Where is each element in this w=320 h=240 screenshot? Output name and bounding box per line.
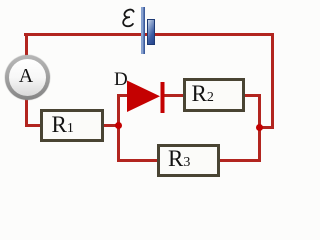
wire node R to right rail bbox=[258, 126, 274, 129]
label D bbox=[114, 70, 128, 89]
wire node R down bbox=[258, 127, 261, 162]
resistor R2 bbox=[183, 78, 245, 112]
wire diode cathode to R2 bbox=[164, 94, 184, 97]
node R junction dot bbox=[256, 124, 263, 131]
label R3 bbox=[168, 147, 190, 170]
wire R3 left horizontal bbox=[117, 159, 159, 162]
wire top-left horizontal bbox=[24, 33, 147, 36]
node L junction dot bbox=[115, 122, 122, 129]
battery cell: long plate bbox=[141, 7, 145, 54]
wire into diode anode bbox=[117, 94, 129, 97]
label R2 bbox=[192, 82, 214, 105]
battery cell: short thick plate bbox=[147, 19, 155, 46]
wire R1 to node L bbox=[103, 124, 118, 127]
wire R3 right horizontal bbox=[219, 159, 261, 162]
label R1 bbox=[52, 113, 74, 136]
resistor R1 bbox=[40, 109, 104, 143]
diode D bbox=[126, 79, 166, 115]
wire left vertical upper (corner to ammeter) bbox=[25, 33, 28, 57]
wire bottom-left horizontal into R1 bbox=[25, 124, 42, 127]
wire top-right horizontal bbox=[155, 33, 274, 36]
wire R2 right horizontal bbox=[244, 94, 261, 97]
ammeter A bbox=[5, 55, 50, 100]
label A (ammeter) bbox=[5, 66, 48, 86]
wire vertical R2 down to node R bbox=[258, 94, 261, 128]
wire left vertical lower (ammeter to corner) bbox=[25, 98, 28, 127]
wire node L down bbox=[117, 125, 120, 162]
label EMF script epsilon bbox=[119, 6, 139, 30]
wire right rail vertical bbox=[271, 33, 274, 129]
wire node L up to diode level bbox=[117, 94, 120, 127]
resistor R3 bbox=[157, 144, 220, 177]
